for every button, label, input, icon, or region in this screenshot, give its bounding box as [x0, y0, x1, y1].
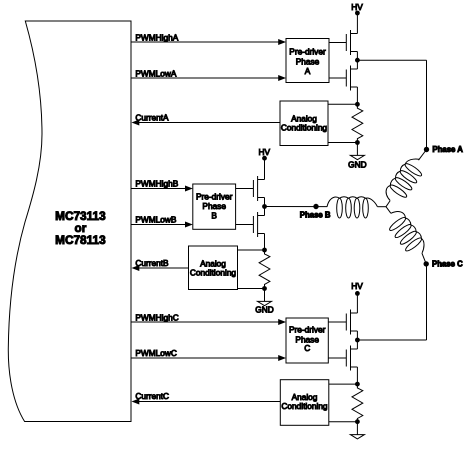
svg-text:Pre-driver: Pre-driver	[289, 47, 326, 57]
svg-text:Pre-driver: Pre-driver	[196, 192, 233, 202]
svg-text:GND: GND	[348, 160, 366, 170]
svg-text:C: C	[304, 343, 310, 353]
svg-text:CurrentB: CurrentB	[135, 258, 169, 268]
svg-text:Conditioning: Conditioning	[281, 401, 328, 411]
svg-text:PWMLowA: PWMLowA	[135, 68, 176, 78]
svg-text:Pre-driver: Pre-driver	[289, 324, 326, 334]
svg-text:Conditioning: Conditioning	[190, 267, 237, 277]
svg-text:PWMLowB: PWMLowB	[135, 215, 176, 225]
svg-text:Phase: Phase	[202, 201, 226, 211]
svg-text:CurrentC: CurrentC	[135, 391, 169, 401]
svg-text:B: B	[211, 211, 217, 221]
svg-text:PWMHighC: PWMHighC	[135, 312, 178, 322]
svg-text:Conditioning: Conditioning	[281, 122, 328, 132]
svg-text:HV: HV	[351, 281, 363, 291]
svg-text:PWMLowC: PWMLowC	[135, 348, 177, 358]
svg-text:HV: HV	[351, 2, 363, 12]
svg-text:PWMHighB: PWMHighB	[135, 179, 178, 189]
svg-text:Phase A: Phase A	[432, 145, 463, 154]
svg-text:Phase B: Phase B	[300, 211, 331, 220]
svg-text:HV: HV	[259, 147, 271, 157]
svg-text:A: A	[305, 66, 311, 76]
svg-text:PWMHighA: PWMHighA	[135, 32, 178, 42]
svg-text:GND: GND	[255, 304, 273, 314]
svg-text:Phase C: Phase C	[432, 260, 463, 269]
svg-text:CurrentA: CurrentA	[135, 112, 169, 122]
svg-text:MC78113: MC78113	[55, 233, 106, 247]
